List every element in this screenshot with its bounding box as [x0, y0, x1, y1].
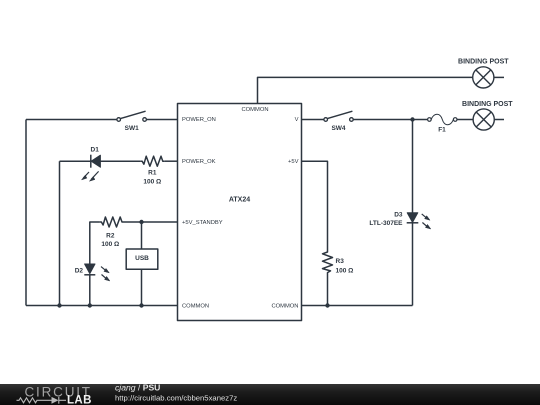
node junction D2 rail on common	[88, 303, 92, 307]
wire branch from +5V_STANDBY down to USB	[141, 222, 143, 249]
svg-text:100 Ω: 100 Ω	[143, 178, 161, 185]
wire POWER_ON left from box to SW1	[146, 119, 177, 121]
svg-text:LTL-307EE: LTL-307EE	[369, 220, 403, 227]
binding post J2 circle-X symbol	[473, 109, 504, 130]
wire D1 to left drop rail	[60, 160, 91, 162]
op-amp U1 : ATX24 main block outline	[178, 104, 302, 321]
node junction R3 on common	[325, 303, 329, 307]
wire vertical drop from D1 row to common	[59, 161, 61, 305]
svg-text:SW1: SW1	[125, 125, 139, 132]
svg-text:LAB: LAB	[67, 394, 92, 405]
svg-text:D1: D1	[91, 147, 100, 154]
svg-text:F1: F1	[438, 126, 446, 133]
svg-text:100 Ω: 100 Ω	[336, 268, 354, 275]
wire common bottom-left	[26, 305, 178, 307]
node junction D1 rail on common	[57, 303, 61, 307]
LED D3	[407, 213, 431, 229]
fuse F1	[428, 114, 457, 124]
switch SW1	[117, 111, 147, 121]
wire top COMMON pin up and right to binding post 1	[258, 77, 473, 103]
resistor R2	[99, 217, 124, 227]
wire D3 branch vertical from V net	[412, 120, 414, 213]
svg-text:USB: USB	[135, 255, 149, 262]
svg-text:ATX24: ATX24	[229, 197, 250, 204]
wire R3 bottom to common	[327, 279, 329, 306]
wire from SW1 to outer-left rail	[26, 119, 117, 121]
svg-text:POWER_ON: POWER_ON	[182, 117, 216, 123]
LED D2	[84, 264, 110, 281]
svg-text:POWER_OK: POWER_OK	[182, 159, 216, 165]
svg-text:COMMON: COMMON	[241, 107, 268, 113]
wire R2 left corner down to D2	[90, 222, 100, 264]
svg-text:http://circuitlab.com/cbben5xa: http://circuitlab.com/cbben5xanez7z	[115, 394, 237, 403]
switch SW4	[324, 111, 353, 121]
wire D3 bottom to common	[412, 223, 414, 306]
logo schematic resistor and diode	[17, 397, 67, 404]
svg-text:V: V	[295, 117, 299, 123]
wire +5V stub right then down to R3	[302, 161, 328, 250]
wire SW4 to F1 with junction branch	[353, 119, 427, 121]
wire V pin from box to SW4	[302, 119, 324, 121]
node junction USB rail on common	[139, 303, 143, 307]
svg-text:D2: D2	[75, 268, 84, 275]
wire F1 to binding post 2	[457, 119, 473, 121]
component USB block	[126, 249, 158, 269]
svg-text:COMMON: COMMON	[271, 303, 298, 309]
svg-text:COMMON: COMMON	[182, 303, 209, 309]
svg-text:R1: R1	[148, 170, 157, 177]
svg-text:BINDING POST: BINDING POST	[462, 101, 513, 108]
svg-text:cjang / PSU: cjang / PSU	[115, 383, 160, 393]
wire +5V_STANDBY stub from box to R2	[124, 221, 178, 223]
resistor R1	[140, 156, 165, 166]
svg-text:R3: R3	[336, 258, 345, 265]
node junction for D3 branch	[410, 117, 414, 121]
svg-text:+5V: +5V	[288, 159, 299, 165]
LED D1	[82, 155, 101, 182]
resistor R3	[323, 250, 333, 279]
svg-text:100 Ω: 100 Ω	[101, 241, 119, 248]
wire common bottom-right	[302, 305, 413, 307]
wire outer-left vertical rail	[25, 120, 27, 306]
svg-text:D3: D3	[394, 212, 403, 219]
wire R1 to D1	[100, 160, 140, 162]
wire POWER_OK stub from box to R1	[165, 160, 178, 162]
binding post J1 circle-X symbol	[473, 67, 504, 88]
svg-text:SW4: SW4	[331, 125, 345, 132]
svg-text:R2: R2	[106, 232, 115, 239]
node junction on +5V_STANDBY	[139, 220, 143, 224]
svg-text:BINDING POST: BINDING POST	[458, 59, 509, 66]
wire D2 bottom to common	[89, 275, 91, 306]
wire USB bottom to common	[141, 269, 143, 305]
svg-text:+5V_STANDBY: +5V_STANDBY	[182, 220, 223, 226]
